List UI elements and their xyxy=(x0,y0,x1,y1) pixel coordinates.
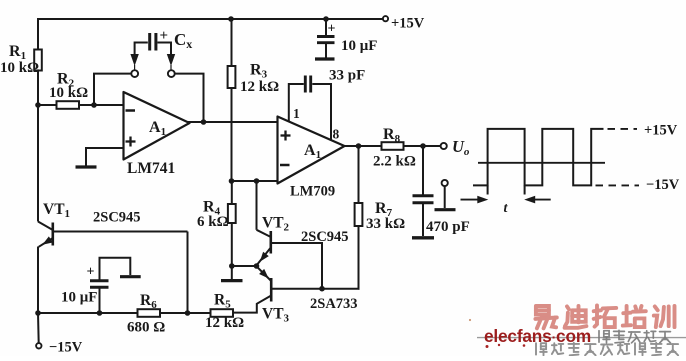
svg-text:680 Ω: 680 Ω xyxy=(127,320,165,336)
transistor VT2 emitter xyxy=(256,248,271,266)
svg-text:6 kΩ: 6 kΩ xyxy=(197,214,229,230)
transistor VT3 collector xyxy=(233,296,271,313)
wire LM741 output xyxy=(188,121,278,123)
wire R7 to bases corner xyxy=(359,288,360,290)
svg-text:LM741: LM741 xyxy=(127,160,175,177)
op-amp A1 LM741 triangle xyxy=(124,92,190,160)
wire R7 bottom xyxy=(358,226,360,289)
wire emitters xyxy=(232,265,257,267)
svg-text:−15V: −15V xyxy=(646,177,680,193)
resistor R3 xyxy=(228,66,236,88)
wire VT2 collector column xyxy=(256,181,258,230)
terminal output return xyxy=(442,180,448,186)
wire return terminal xyxy=(444,186,446,208)
node Cx-output junction xyxy=(201,119,207,125)
label A1 minus input xyxy=(126,109,136,112)
svg-text:−15V: −15V xyxy=(49,340,83,356)
node R3 top junction xyxy=(228,16,234,22)
wire VT2 base xyxy=(271,243,322,289)
wire VT1 base xyxy=(53,231,188,233)
svg-text:12 kΩ: 12 kΩ xyxy=(205,315,244,331)
wire R8 right xyxy=(404,145,441,147)
wire R3 top xyxy=(231,19,233,66)
node bases junction xyxy=(319,286,325,292)
resistor R7 xyxy=(355,203,363,226)
arrow Cx left plug xyxy=(130,54,138,66)
watermark text 电子发烧友 xyxy=(599,330,670,343)
watermark text 易迪拓培训 xyxy=(535,306,674,329)
node 470pF top junction xyxy=(420,143,426,149)
svg-text:+: + xyxy=(160,28,169,44)
node VT2 collector junction xyxy=(254,178,260,184)
ground C2 xyxy=(315,57,335,60)
wire R2 right xyxy=(79,104,124,106)
wire C2 top xyxy=(325,19,327,35)
wire R4 ground stub xyxy=(231,266,233,279)
terminal -15V xyxy=(36,343,41,348)
svg-text:+: + xyxy=(87,265,95,280)
svg-text:+15V: +15V xyxy=(644,123,678,139)
wire R7 top xyxy=(358,146,360,203)
resistor R2 xyxy=(57,101,80,109)
svg-text:LM709: LM709 xyxy=(290,184,335,200)
wire 470pF bottom xyxy=(422,203,424,236)
transistor VT3 bar xyxy=(270,278,273,302)
watermark text 射频和天线设计专家 xyxy=(536,343,678,356)
terminal Uo xyxy=(441,143,447,149)
ground 470pF xyxy=(412,236,434,239)
resistor R1 xyxy=(34,50,42,71)
node C-10uF top junction xyxy=(323,16,329,22)
resistor R4 xyxy=(228,204,236,223)
svg-text:470 pF: 470 pF xyxy=(426,219,470,235)
svg-text:33 kΩ: 33 kΩ xyxy=(366,216,405,232)
wire Cx left lead xyxy=(135,43,148,55)
svg-text:10 μF: 10 μF xyxy=(61,290,97,306)
waveform square wave xyxy=(473,129,604,186)
node R7 top junction xyxy=(356,143,362,149)
transistor VT1 collector xyxy=(38,222,53,231)
svg-text:8: 8 xyxy=(333,127,340,142)
transistor VT2 collector xyxy=(257,230,271,237)
wire LM709 minus input xyxy=(231,180,279,182)
wire +15V top rail xyxy=(38,18,383,20)
label A2 minus input xyxy=(280,164,290,167)
wire 470pF top xyxy=(422,146,424,195)
wire Cx right to A1 output xyxy=(175,74,204,121)
wire C3 bottom xyxy=(99,288,101,314)
wire bottom rail left xyxy=(38,312,138,314)
wire C3 bracket xyxy=(100,258,131,280)
node R2 right junction xyxy=(91,102,97,108)
wire C2 bottom xyxy=(325,43,327,58)
wire R1 bottom xyxy=(37,71,39,107)
wire R4 top xyxy=(231,181,233,204)
wire R4 bottom xyxy=(231,223,233,267)
node A junction R1-R2 xyxy=(35,102,41,108)
op-amp A1 LM709 triangle xyxy=(278,117,345,184)
capacitor 33pF plates xyxy=(304,76,307,93)
transistor VT3 emitter arrow xyxy=(259,269,269,279)
transistor VT2 emitter arrow xyxy=(260,252,269,262)
svg-text:+: + xyxy=(328,22,336,37)
svg-text:1: 1 xyxy=(293,106,300,121)
resistor R6 xyxy=(138,309,161,317)
ground R4 xyxy=(221,279,243,282)
waveform center line xyxy=(478,162,605,164)
node R3-R4 junction xyxy=(229,178,235,184)
wire Cx right lead xyxy=(158,43,172,55)
wire pin 8 xyxy=(312,84,331,141)
resistor R8 xyxy=(382,142,404,150)
wire VT1 base drop xyxy=(187,232,189,314)
wire pin 1 xyxy=(289,84,304,122)
transistor VT1 emitter xyxy=(39,238,53,247)
ground C3 bracket bar xyxy=(120,275,141,278)
waveform t arrow left xyxy=(461,199,485,201)
wire R3 bottom xyxy=(231,88,233,181)
wire R2 left xyxy=(37,104,57,106)
transistor VT3 base line xyxy=(271,288,359,290)
svg-text:2SA733: 2SA733 xyxy=(310,296,358,312)
svg-text:33 pF: 33 pF xyxy=(329,68,365,84)
svg-text:elecfans·com: elecfans·com xyxy=(484,326,591,346)
wire rail R6-R5 xyxy=(160,312,211,314)
svg-text:10 kΩ: 10 kΩ xyxy=(0,60,39,76)
wire R1 top xyxy=(37,18,39,50)
waveform t arrow right xyxy=(528,199,551,201)
ground LM741 plus xyxy=(76,165,97,168)
capacitor 470pF plates xyxy=(413,194,434,197)
transistor VT2 bar xyxy=(269,231,272,254)
node C3 bottom junction xyxy=(97,310,103,316)
waveform dashed +15V xyxy=(608,128,638,130)
node VT1 base-rail junction xyxy=(185,310,191,316)
wire VT1 emitter rail xyxy=(37,247,39,315)
wire -15V stub xyxy=(37,313,40,343)
svg-text:2.2 kΩ: 2.2 kΩ xyxy=(373,154,416,170)
transistor VT3 emitter xyxy=(257,266,272,281)
label A1 plus input xyxy=(126,140,136,142)
svg-text:10 μF: 10 μF xyxy=(341,38,377,54)
wire Cx left drop xyxy=(94,74,131,104)
capacitor C3 plates xyxy=(90,279,109,282)
capacitor 10uF top plates xyxy=(317,35,335,38)
node left rail bottom junction xyxy=(35,310,41,316)
resistor R5 xyxy=(211,309,234,317)
ground return terminal xyxy=(435,208,456,211)
terminal Cx left socket xyxy=(131,70,138,77)
node R4-emitters junction xyxy=(229,263,235,269)
wire LM741 plus input xyxy=(86,148,124,166)
svg-text:2SC945: 2SC945 xyxy=(93,210,141,226)
wire LM709 output xyxy=(343,145,382,147)
transistor VT1 bar xyxy=(51,223,54,246)
transistor VT1 emitter arrow xyxy=(42,236,52,244)
watermark underline xyxy=(477,337,686,339)
watermark red drips xyxy=(486,345,489,348)
waveform dashed -15V xyxy=(596,184,640,186)
label A2 plus input xyxy=(281,134,291,136)
svg-text:+15V: +15V xyxy=(391,16,425,32)
arrow Cx right plug xyxy=(167,54,175,66)
waveform edge tick 1 xyxy=(487,185,489,194)
capacitor Cx plates xyxy=(148,33,151,51)
node VT2-VT3 emitter junction xyxy=(254,263,260,269)
svg-text:10 kΩ: 10 kΩ xyxy=(49,85,88,101)
terminal Cx right socket xyxy=(168,70,175,77)
waveform edge tick 2 xyxy=(524,185,526,194)
svg-text:12 kΩ: 12 kΩ xyxy=(240,79,279,95)
wire left rail xyxy=(37,105,39,222)
terminal +15V xyxy=(383,16,388,21)
